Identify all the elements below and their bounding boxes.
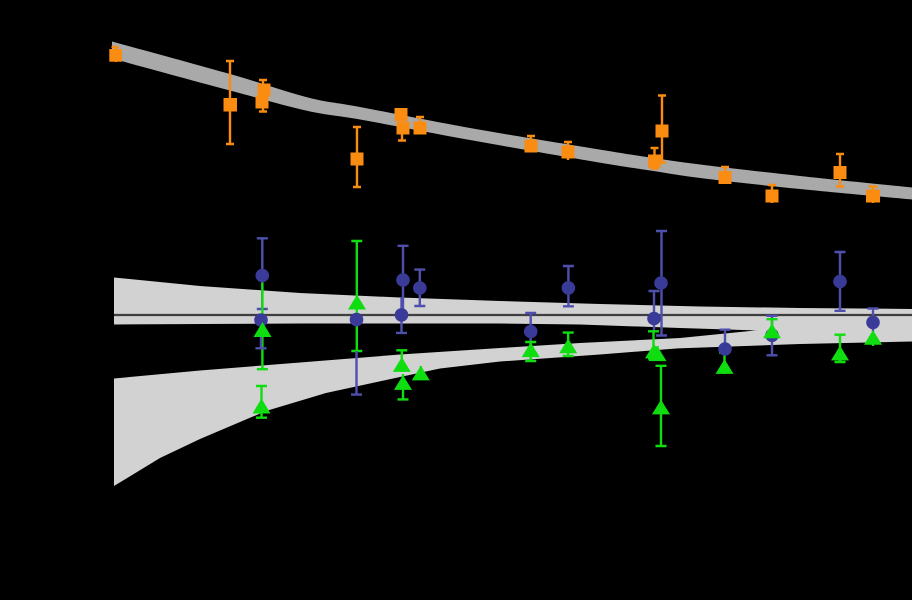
blue errbar B4 [398,246,409,311]
orange errbar O1 [112,47,119,62]
orange errbar O9 [658,95,666,163]
orange point O10 [648,155,661,168]
green errbar G8 [563,333,574,356]
orange point O9 [656,125,669,138]
green errbar G2 [256,386,267,418]
orange fit band (descending gray curve) [112,42,912,200]
blue error bars [257,231,879,355]
blue point B1 [255,269,269,283]
blue point B10 [647,312,661,326]
orange errbar O10 [651,148,659,170]
green point G5 [394,375,412,390]
blue error bars drawn above green bars [256,320,363,395]
blue errbar B1 [257,238,268,309]
blue errbar B2 [256,320,267,348]
blue point B4 [396,273,410,287]
orange point O3a [258,84,271,97]
blue errbar B10 [649,291,660,331]
green point G3 [348,295,366,310]
orange error bars [112,47,878,203]
green point G10 [649,346,667,361]
blue point B9 [654,276,668,290]
blue errbar B13 [835,252,846,311]
blue point B2 (hidden behind green triangle) [254,313,268,327]
orange errbar O7 [527,136,535,152]
green point G13 [763,323,781,338]
orange errbar O4 [353,127,361,187]
blue point B7 [524,325,538,339]
blue fit band (flat light-gray band around unity line) [114,278,912,335]
blue point B5 [395,308,409,322]
green point G12 [716,359,734,374]
green errbar G15 [872,331,874,346]
orange point O14 [866,190,880,203]
orange errbar O11 [721,167,729,184]
orange point O8 [562,146,575,159]
green errbar G5 [398,374,409,399]
orange point O7 [525,140,538,153]
orange point O4 [351,153,364,166]
blue errbar B3 [351,351,362,395]
orange errbar O5 [398,108,406,141]
green triangle markers [253,295,883,415]
orange errbar O12 [768,185,776,203]
orange errbar O14 [869,187,878,204]
unity reference line [114,314,912,316]
green errbar G12 [719,353,730,375]
green errbar G9 [648,331,659,358]
orange point O13 [834,166,847,179]
green point G7 [522,342,540,357]
orange point O11 [719,171,732,184]
orange errbar O13 [836,154,844,187]
blue point B3 [350,313,364,327]
orange point O1 [109,49,122,62]
orange point O2 [224,98,238,112]
blue errbar B8 [563,266,574,306]
green point G11 [652,400,670,415]
green errbar G13 [767,319,778,338]
green point G2 [253,399,271,414]
green errbar G6 [420,366,422,379]
blue errbar B5 [396,297,407,333]
green error bars [256,241,873,446]
blue point B13 [833,275,847,289]
orange square markers [109,49,880,203]
blue circle markers [254,269,847,356]
blue point B8 [562,281,576,295]
green errbar G4 [396,350,407,372]
blue errbar B6 [414,270,425,306]
green errbar G14 [835,335,846,362]
orange point O3b [256,96,269,109]
green point G4 [393,357,411,372]
blue errbar B11 [720,330,731,352]
orange point O6 [414,122,427,135]
orange errbar O8 [564,142,572,160]
green point G14 [831,346,849,361]
orange errbar O6 [416,117,424,134]
blue point B12 [765,329,779,343]
green point G9 [645,344,663,359]
green errbar G10 [656,346,658,360]
blue point B14 (drawn over green triangle G15) [866,316,880,330]
green errbar G7 [525,342,536,361]
blue errbar B9 [656,231,667,336]
orange point O5b [397,122,410,135]
blue errbar B12 [767,316,778,356]
green point G15 [864,330,882,345]
green fit band (rising light-gray wedge) [114,327,912,486]
green point G8 [559,339,577,354]
orange errbar O3 [259,80,267,112]
blue errbar B7 [525,313,536,341]
orange point O5a [395,108,408,121]
orange point O12 [766,190,779,203]
orange errbar O2 [226,61,234,144]
blue point B11 [718,342,732,356]
green errbar G3 [351,241,362,351]
green errbar G1 [257,283,268,370]
blue point B6 [413,281,427,295]
green point G1 [254,322,272,337]
green point G6 [412,366,430,381]
blue errbar B14 [868,309,879,332]
green errbar G11 [656,366,667,446]
